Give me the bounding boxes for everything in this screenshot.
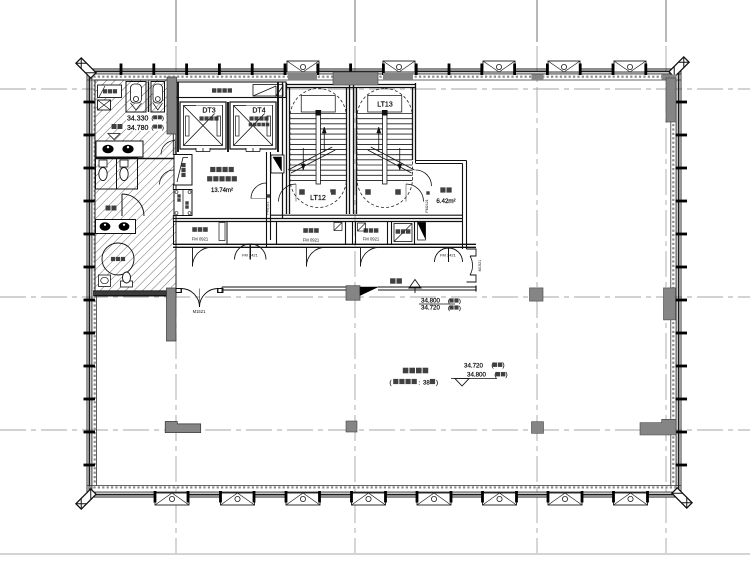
- office occupancy label (shiyong renshu 38 ren): [390, 379, 439, 387]
- kitchen exhaust shaft strip (paiyouyanjing): [176, 82, 286, 98]
- pipe shaft stack left of lobby: [174, 190, 192, 216]
- room row top wall: [271, 214, 462, 216]
- accessible toilet turning circle: [102, 243, 134, 275]
- svg-text:M1521: M1521: [478, 260, 482, 272]
- drawing frame bottom line: [0, 553, 750, 555]
- accessible basin: [99, 275, 111, 287]
- operable window panel top 5: [614, 61, 646, 72]
- door from lobby to toilet corridor: [160, 170, 175, 185]
- svg-text:M1521: M1521: [193, 309, 206, 314]
- single door condensate room: [360, 247, 362, 266]
- svg-text:): ): [459, 299, 461, 305]
- curtain wall right: [680, 69, 682, 497]
- stair LT13 treads and stringer: [357, 89, 413, 208]
- stair door to east vestibule: [416, 170, 432, 186]
- curtain wall left: [86, 69, 88, 497]
- column grid C3: [532, 422, 544, 434]
- svg-text:6.42m²: 6.42m²: [436, 198, 455, 205]
- operable window panel bottom 1: [155, 493, 189, 505]
- corner marker top-right: [669, 57, 689, 77]
- stall divider wall: [148, 82, 150, 113]
- svg-text:LT12: LT12: [310, 193, 326, 202]
- core shear-wall hatch block (toilet zone): [95, 80, 176, 296]
- weak current room (ruodianjian): [174, 222, 228, 245]
- office label (zongbu bangong): [403, 368, 409, 374]
- direction wedge on corridor wall: [360, 287, 378, 296]
- stair LT13 labels: [372, 100, 398, 109]
- operable window panel bottom 7: [548, 493, 582, 505]
- operable window panel bottom 8: [614, 493, 648, 505]
- svg-text:34.330: 34.330: [127, 116, 149, 123]
- mullion ticks top edge: [120, 64, 648, 76]
- door M1521 east wall bump: [467, 249, 477, 256]
- mullion ticks right edge: [676, 101, 688, 467]
- grid line horizontal H3 y=430: [0, 429, 750, 431]
- corridor south wall: [222, 286, 346, 288]
- operable window panel bottom 3: [286, 493, 320, 505]
- wash basin counter (men): [96, 141, 143, 157]
- shaft with X (top-left): [98, 100, 111, 110]
- svg-text:13.74m²: 13.74m²: [211, 188, 233, 194]
- grid line horizontal H2 y=297: [0, 296, 750, 298]
- mullion ticks left edge: [84, 101, 96, 467]
- svg-text:): ): [503, 363, 505, 369]
- stair exit door arcs: [279, 184, 297, 202]
- stair LT12 labels: [299, 189, 305, 195]
- women toilet door arc: [122, 194, 144, 216]
- column at corridor grid B2: [346, 286, 360, 301]
- double door FM-jia-2421 (east vestibule): [435, 248, 449, 262]
- operable window panel bottom 6: [483, 493, 517, 505]
- corridor north wall: [173, 243, 476, 245]
- svg-text:34.780: 34.780: [127, 125, 149, 132]
- corridor elevation arrow: [409, 280, 421, 294]
- grid line vertical V1 x=176: [175, 0, 177, 42]
- svg-text:34.720: 34.720: [421, 305, 440, 312]
- svg-text::: :: [419, 381, 421, 387]
- curtain wall top: [87, 68, 681, 70]
- operable window panel top 4: [548, 61, 580, 72]
- pressurization shaft room (jiayajing) left of lobby: [174, 155, 192, 186]
- shaft with insulation wedge (right of lobby): [271, 155, 284, 173]
- urinal stall A (men toilet): [126, 82, 146, 113]
- svg-text:DT4: DT4: [252, 108, 265, 115]
- svg-text:FM 2421: FM 2421: [440, 253, 457, 258]
- east vestibule top wall: [415, 160, 417, 163]
- svg-text:FM1021: FM1021: [266, 201, 270, 214]
- svg-text:): ): [459, 306, 461, 312]
- grid line vertical V3 x=537: [536, 0, 538, 42]
- grid line vertical V2 x=355: [354, 0, 356, 42]
- double door M1521 west (to office): [176, 289, 200, 308]
- column pier at grid A3 (stepped): [165, 422, 201, 433]
- east vestibule east wall: [462, 164, 464, 250]
- svg-text:): ): [436, 380, 438, 387]
- column right wall at grid H3: [640, 419, 676, 435]
- condensate shaft room: [352, 222, 354, 245]
- women toilet label: [106, 206, 111, 211]
- smoke vent shaft room (yanfengjing): [98, 85, 122, 98]
- lobby west wall segments: [172, 134, 174, 155]
- office elevation triangle marker: [451, 378, 497, 380]
- urinal stall B (men toilet): [151, 82, 165, 113]
- operable window panel top 2: [383, 61, 415, 72]
- svg-text:34.800: 34.800: [467, 372, 486, 379]
- strong current room (qiangdianjian): [276, 222, 278, 245]
- stair LT12 treads and stringer: [290, 89, 347, 208]
- operable window panel bottom 5: [417, 493, 451, 505]
- svg-text:): ): [162, 116, 164, 122]
- svg-text:): ): [162, 125, 164, 131]
- wall between men and women toilets: [95, 158, 176, 160]
- shared lobby label (heyong qianshi / elevator hall / 13.74m2): [210, 167, 215, 172]
- lobby east wall: [266, 152, 268, 247]
- svg-text:LT13: LT13: [377, 102, 393, 109]
- svg-text:34.800: 34.800: [421, 298, 440, 305]
- level text 34.780 (architectural) + men toilet label: [112, 124, 117, 129]
- lobby door FM-yi-1021: [251, 183, 267, 199]
- east vestibule labels 6.42m2: [440, 187, 445, 192]
- WC stall 2 (women): [117, 158, 138, 190]
- door into men toilet below pier: [161, 141, 175, 155]
- elevation triangle marker (men toilet): [108, 134, 120, 140]
- south wall of toilet block: [93, 291, 176, 296]
- svg-text:FM 0921: FM 0921: [363, 237, 380, 242]
- gray wall top center (stair smoke vents): [288, 73, 317, 80]
- corner marker bottom-right: [672, 488, 692, 508]
- elevator DT4 (fire + accessible elevator): [230, 102, 276, 149]
- exhaust damper symbol: [253, 85, 283, 97]
- svg-text:DT3: DT3: [202, 108, 215, 115]
- stair LT13 walls: [353, 83, 355, 214]
- WC stall 1 (women): [96, 158, 117, 190]
- corner marker bottom-left: [76, 489, 96, 509]
- svg-text:FM 2421: FM 2421: [242, 253, 259, 258]
- stair LT12 walls: [286, 83, 288, 214]
- corridor label (zoulang): [390, 278, 395, 283]
- column top-right corner: [666, 78, 676, 122]
- svg-text:38: 38: [423, 381, 430, 387]
- level text 34.330 (structural) men toilet: [126, 113, 166, 132]
- corridor south wall east segment: [378, 286, 476, 288]
- single door strong current room: [306, 247, 308, 266]
- grid line vertical V4 x=666: [665, 0, 667, 42]
- svg-text:FM 0921: FM 0921: [192, 237, 209, 242]
- corridor south wall west segment + pier: [167, 288, 177, 341]
- double door FM-jia-2421 (lobby passage): [235, 244, 251, 260]
- operable window panel bottom 4: [352, 493, 386, 505]
- svg-text:34.720: 34.720: [464, 362, 483, 369]
- single door weak current room: [192, 247, 194, 266]
- elevator DT3 (fire elevator): [180, 102, 226, 149]
- insulation wedge east of pressurization shaft: [418, 223, 426, 240]
- pressurization shaft room east: [391, 222, 393, 245]
- elevator block walls: [177, 82, 179, 152]
- column right wall at grid H2: [664, 288, 676, 320]
- mullion ticks bottom edge: [154, 491, 649, 503]
- column pier top wall (toilet/elevator divider): [167, 77, 177, 134]
- column grid B3: [346, 421, 357, 432]
- svg-text:): ): [506, 373, 508, 379]
- accessible WC: [121, 281, 133, 287]
- wash basin counter (women): [96, 220, 136, 234]
- corner marker top-left: [76, 58, 96, 78]
- operable window panel bottom 2: [221, 493, 255, 505]
- svg-text:FM2421: FM2421: [425, 199, 429, 212]
- column grid C2 (office): [530, 288, 544, 301]
- curtain wall bottom: [87, 496, 681, 498]
- operable window panel top 1: [287, 61, 319, 72]
- svg-text:FM 0921: FM 0921: [303, 238, 320, 243]
- grid line horizontal H1 y=89: [0, 88, 750, 90]
- operable window panel top 3: [483, 61, 515, 72]
